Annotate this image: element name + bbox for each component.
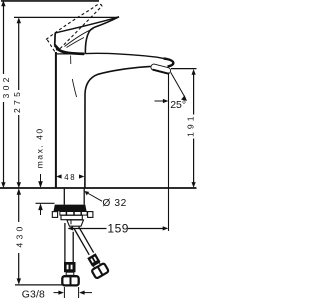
svg-text:48: 48 [64,173,76,182]
svg-text:159: 159 [107,222,129,236]
svg-text:275: 275 [12,89,22,113]
svg-text:G3/8: G3/8 [22,290,45,300]
svg-text:max. 40: max. 40 [35,127,45,168]
svg-text:430: 430 [14,223,24,247]
svg-text:302: 302 [1,74,11,98]
svg-text:Ø 32: Ø 32 [102,198,127,209]
svg-text:191: 191 [185,113,195,137]
svg-text:25°: 25° [170,99,186,111]
